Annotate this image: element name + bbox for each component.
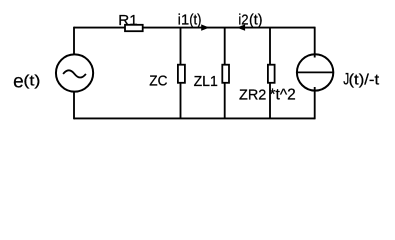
current source bar — [297, 71, 333, 73]
wire left branch lower — [73, 91, 75, 120]
wire bottom rail — [74, 117, 315, 119]
resistor R1 — [125, 25, 143, 31]
wire left branch upper — [73, 27, 75, 56]
wire top rail — [74, 27, 315, 29]
impedance ZR2 — [268, 65, 275, 83]
wire ZR2 branch — [269, 28, 271, 119]
wire right branch lower — [314, 87, 316, 119]
svg-text:(t)/-t: (t)/-t — [349, 71, 381, 88]
arrow i2 — [237, 24, 245, 30]
wire ZC branch — [180, 28, 182, 119]
svg-text:R1: R1 — [118, 13, 138, 29]
svg-text:(t): (t) — [23, 74, 40, 90]
impedance ZL1 — [222, 65, 229, 83]
svg-text:(t): (t) — [189, 13, 201, 29]
wire ZL1 branch — [224, 28, 226, 119]
svg-text:e: e — [13, 71, 24, 92]
wire right branch upper — [314, 27, 316, 58]
svg-text:ZR2: ZR2 — [239, 87, 266, 104]
source e(t) U1 — [56, 54, 93, 91]
svg-text:(t): (t) — [249, 13, 263, 29]
svg-text:i1: i1 — [178, 13, 190, 29]
arrow i1 — [201, 24, 209, 30]
sine symbol — [63, 70, 86, 77]
impedance ZC — [178, 65, 185, 83]
svg-text:ZC: ZC — [149, 73, 167, 90]
svg-text:ZL1: ZL1 — [194, 73, 218, 90]
svg-text:*t^2: *t^2 — [270, 87, 296, 104]
source J(t)/-t U2 — [297, 54, 333, 90]
